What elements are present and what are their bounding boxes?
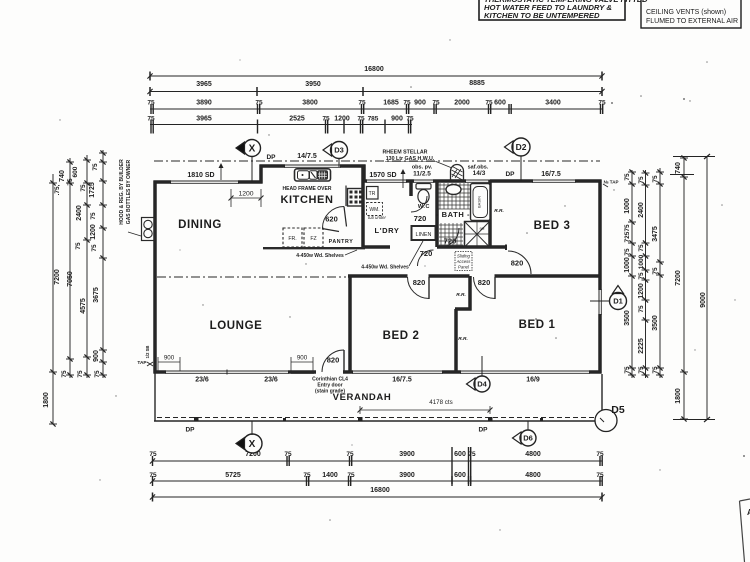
window arrows (SD) — [220, 165, 222, 180]
wall: laundry/wc x=411 — [409, 180, 413, 197]
svg-text:FLUMED TO EXTERNAL AIR: FLUMED TO EXTERNAL AIR — [646, 18, 738, 25]
GROUP: top dimension rows — [147, 66, 606, 134]
basin — [446, 185, 461, 195]
svg-text:75: 75 — [255, 100, 263, 107]
wall: lounge/bed2 x=350 — [348, 276, 352, 373]
svg-text:75: 75 — [90, 212, 97, 220]
svg-text:75: 75 — [75, 242, 82, 250]
marker D2 — [512, 138, 530, 156]
svg-text:75: 75 — [624, 173, 631, 181]
svg-text:7050: 7050 — [67, 271, 74, 287]
note box left (hot water note) — [479, 0, 625, 20]
verandah 4178 cts dimension — [360, 409, 490, 411]
1200 dimension (kitchen) — [231, 197, 261, 199]
svg-text:740: 740 — [59, 170, 66, 182]
toilet WC — [416, 184, 431, 190]
GROUP: top note boxes — [479, 0, 741, 28]
svg-text:DP: DP — [185, 427, 195, 434]
svg-text:HEAD FRAME OVER: HEAD FRAME OVER — [283, 186, 332, 192]
window: bed1 16/9 — [460, 370, 590, 372]
svg-text:2525: 2525 — [289, 116, 305, 123]
svg-text:FR.: FR. — [288, 236, 296, 242]
GROUP: doors — [322, 196, 531, 372]
shower (cross hatched) — [465, 222, 490, 248]
svg-text:1570 SD: 1570 SD — [369, 172, 396, 179]
left dim line 1 (7200/1800) — [52, 174, 54, 424]
bath room tile hatch lower — [439, 223, 463, 246]
svg-text:16/7.5: 16/7.5 — [392, 377, 412, 384]
svg-text:720: 720 — [420, 249, 433, 258]
right dim line 2 — [645, 170, 647, 378]
svg-text:D3: D3 — [334, 146, 344, 155]
WM (washing machine) — [367, 203, 383, 216]
svg-text:14/3: 14/3 — [473, 170, 486, 177]
svg-text:D4: D4 — [477, 380, 487, 389]
svg-text:75: 75 — [322, 116, 330, 123]
svg-text:16/9: 16/9 — [526, 377, 540, 384]
svg-text:11/2.5: 11/2.5 — [413, 171, 431, 178]
svg-text:16800: 16800 — [364, 66, 384, 73]
svg-text:75: 75 — [94, 370, 101, 378]
svg-text:D5: D5 — [611, 404, 625, 416]
svg-text:75: 75 — [624, 366, 631, 374]
svg-text:Panel: Panel — [458, 265, 470, 270]
left dim line 2 (740/7050) — [69, 158, 71, 378]
GROUP: fixtures — [128, 163, 608, 422]
svg-text:№ TAP: № TAP — [604, 180, 619, 185]
wall: outer right — [598, 180, 602, 291]
wall: bath/bed3 x=490 — [488, 180, 492, 248]
left dim line 3 (2400/4575) — [86, 155, 88, 378]
svg-text:3900: 3900 — [399, 451, 415, 458]
svg-text:4800: 4800 — [525, 451, 541, 458]
door: WC 720 — [411, 196, 427, 212]
GROUP: room labels — [178, 194, 570, 403]
GROUP: walls — [154, 161, 604, 422]
svg-text:2400: 2400 — [76, 205, 83, 221]
svg-text:75: 75 — [652, 366, 659, 374]
window: saf.obs 14/3 — [465, 179, 491, 181]
wall: top right section (windows 1570SD, obs pv, saf obs, 16/7.5) — [363, 179, 368, 183]
svg-text:DP: DP — [266, 154, 276, 161]
svg-text:900: 900 — [93, 350, 100, 362]
svg-text:TR: TR — [369, 191, 376, 197]
svg-text:D6: D6 — [523, 434, 533, 443]
sliding access panel note box — [455, 252, 472, 271]
kitchen shelves line — [263, 247, 365, 249]
right dim line 3 — [659, 168, 661, 378]
svg-text:1200: 1200 — [638, 283, 645, 299]
dim row: 3965/3950/8885 — [150, 91, 602, 93]
svg-text:1000: 1000 — [638, 254, 645, 269]
svg-text:14/7.5: 14/7.5 — [297, 153, 317, 160]
svg-text:3500: 3500 — [652, 315, 659, 331]
TR box — [367, 187, 379, 200]
eaves dash-dot line top — [154, 160, 600, 162]
svg-text:1000: 1000 — [624, 257, 631, 273]
scan noise specks — [611, 102, 613, 104]
GROUP: noise — [59, 39, 745, 530]
svg-text:620: 620 — [325, 215, 338, 224]
svg-text:RHEEM STELLAR: RHEEM STELLAR — [382, 150, 427, 156]
svg-text:GAS BOTTLES BY OWNER: GAS BOTTLES BY OWNER — [126, 159, 132, 224]
wall: hall south y=276 — [348, 274, 408, 278]
svg-text:3475: 3475 — [652, 226, 659, 242]
svg-text:75: 75 — [406, 116, 414, 123]
window: bed1 side (D1) — [598, 289, 600, 315]
svg-text:3500: 3500 — [624, 310, 631, 326]
svg-text:75: 75 — [92, 163, 99, 171]
marker X bottom — [243, 434, 262, 453]
GROUP: bottom dimension rows — [149, 447, 604, 502]
svg-text:Access: Access — [456, 259, 472, 264]
svg-text:1685: 1685 — [383, 100, 399, 107]
svg-text:5725: 5725 — [225, 472, 241, 479]
svg-text:600: 600 — [494, 100, 506, 107]
svg-text:3950: 3950 — [305, 81, 321, 88]
svg-text:3900: 3900 — [399, 472, 415, 479]
svg-text:1800: 1800 — [43, 392, 50, 408]
svg-text:KITCHEN: KITCHEN — [280, 194, 333, 206]
dim row: overall 16800 top — [150, 75, 602, 77]
marker X top — [244, 140, 261, 157]
bath tub — [471, 184, 491, 221]
svg-text:16/7.5: 16/7.5 — [541, 171, 561, 178]
svg-text:KITCHEN TO BE UNTEMPERED: KITCHEN TO BE UNTEMPERED — [484, 11, 600, 20]
svg-text:75: 75 — [652, 267, 659, 275]
verandah posts — [194, 417, 199, 422]
svg-text:Sliding: Sliding — [457, 254, 471, 259]
GROUP: markers — [236, 138, 627, 453]
svg-text:720: 720 — [444, 237, 457, 246]
svg-text:R.R.: R.R. — [494, 208, 504, 214]
svg-text:75: 75 — [61, 370, 68, 378]
note box right (ceiling vents note) — [641, 0, 741, 28]
svg-text:R.R.: R.R. — [456, 292, 466, 298]
right dim line 5 (9000) — [706, 156, 708, 420]
svg-text:7200: 7200 — [54, 269, 61, 285]
svg-text:75: 75 — [624, 248, 631, 256]
svg-text:4800: 4800 — [525, 472, 541, 479]
svg-text:D1: D1 — [613, 297, 623, 306]
svg-text:4-450w Wd. Shelves: 4-450w Wd. Shelves — [361, 265, 409, 271]
svg-text:BASIN: BASIN — [477, 196, 482, 208]
svg-text:75: 75 — [149, 472, 157, 479]
svg-text:75: 75 — [284, 451, 292, 458]
marker D1 — [610, 293, 627, 310]
verandah: inner dashed line — [157, 417, 601, 419]
door: bed2 820 — [428, 277, 430, 299]
dining/lounge divider dash-dot — [157, 276, 346, 278]
svg-text:600: 600 — [454, 472, 466, 479]
window: kitchen sink — [284, 164, 341, 166]
svg-text:75: 75 — [485, 100, 493, 107]
GROUP: annotations — [119, 150, 750, 562]
wall: wc/bath x=437 — [435, 180, 439, 248]
svg-text:2225: 2225 — [638, 338, 645, 354]
svg-text:75: 75 — [596, 451, 604, 458]
verandah: left edge — [154, 373, 156, 422]
svg-text:600: 600 — [454, 451, 466, 458]
door: entry 820 — [343, 350, 345, 372]
svg-text:725: 725 — [624, 231, 631, 242]
svg-text:75: 75 — [358, 100, 366, 107]
svg-text:DP: DP — [505, 171, 515, 178]
wall: kitchen nook step right — [362, 165, 366, 183]
linen cupboard — [412, 226, 436, 240]
svg-text:75: 75 — [432, 100, 440, 107]
svg-text:75: 75 — [638, 272, 645, 280]
door: bath 720 — [440, 228, 459, 247]
svg-text:900: 900 — [164, 355, 175, 362]
svg-text:900: 900 — [297, 355, 308, 362]
svg-text:1400: 1400 — [322, 472, 338, 479]
svg-text:R.R.: R.R. — [458, 336, 468, 342]
svg-text:75: 75 — [624, 224, 631, 232]
svg-text:X: X — [249, 144, 256, 155]
svg-text:16800: 16800 — [370, 487, 390, 494]
marker D4 — [474, 376, 490, 392]
svg-text:720: 720 — [414, 214, 427, 223]
svg-text:820: 820 — [511, 259, 524, 268]
svg-text:820: 820 — [327, 356, 340, 365]
svg-text:tub under: tub under — [368, 215, 386, 220]
window: obs pv 11/2.5 — [413, 179, 434, 181]
900 dimension brackets on bottom wall — [158, 361, 180, 363]
svg-text:DINING: DINING — [178, 219, 222, 231]
wall: kitchen/laundry x=363 — [361, 166, 365, 247]
tap marks — [147, 362, 153, 366]
wall: bath block bottom — [437, 245, 506, 249]
svg-text:BED 1: BED 1 — [519, 319, 556, 331]
svg-text:1725: 1725 — [89, 182, 96, 198]
svg-text:WM.: WM. — [369, 207, 379, 213]
svg-text:1810 SD: 1810 SD — [187, 172, 214, 179]
sheet corner bottom right — [740, 499, 750, 562]
svg-text:2400: 2400 — [638, 202, 645, 218]
svg-text:75: 75 — [403, 100, 411, 107]
svg-text:3965: 3965 — [196, 81, 212, 88]
svg-text:900: 900 — [414, 100, 426, 107]
svg-text:9R: 9R — [479, 226, 484, 231]
freezer FZ — [304, 228, 323, 247]
svg-text:740: 740 — [675, 162, 682, 174]
right dim line 1 — [631, 170, 633, 378]
right dim line 4 (740/7200/1800) — [683, 156, 685, 420]
wall: kitchen nook top (window over sink) — [260, 164, 286, 168]
svg-text:(stain grade): (stain grade) — [315, 389, 345, 395]
svg-text:3400: 3400 — [545, 100, 561, 107]
svg-text:75: 75 — [468, 451, 476, 458]
marker D6 — [520, 430, 536, 446]
svg-text:75: 75 — [598, 100, 606, 107]
svg-text:3965: 3965 — [196, 116, 212, 123]
door: bed3 820 — [508, 251, 531, 274]
svg-text:1/2 SB: 1/2 SB — [145, 346, 150, 359]
svg-text:BED 3: BED 3 — [534, 220, 571, 232]
svg-text:4178 cts: 4178 cts — [429, 399, 452, 406]
svg-text:HOOD & REG. BY BUILDER: HOOD & REG. BY BUILDER — [119, 159, 125, 225]
GROUP: left dimension columns — [43, 150, 107, 427]
svg-text:8885: 8885 — [469, 80, 485, 87]
dim row bottom 3: overall 16800 — [152, 496, 602, 498]
window: bed2 16/7.5 — [352, 370, 443, 372]
kitchen sink — [295, 169, 331, 181]
verandah: bottom edge — [154, 420, 603, 422]
door: bed1 820 — [494, 277, 496, 299]
svg-text:75: 75 — [638, 244, 645, 252]
svg-text:75: 75 — [67, 178, 74, 186]
left dim line 4 (600/1725/1200/3675/900) — [102, 150, 104, 378]
svg-text:4575: 4575 — [80, 298, 87, 314]
wall: laundry bottom — [363, 245, 390, 249]
svg-text:75: 75 — [303, 472, 311, 479]
svg-text:75: 75 — [638, 366, 645, 374]
window: entry sidelight 900 — [291, 370, 314, 372]
verandah: right edge — [601, 374, 603, 422]
wall: bottom with windows — [154, 370, 167, 374]
svg-text:75: 75 — [147, 100, 155, 107]
svg-text:CEILING VENTS (shown): CEILING VENTS (shown) — [646, 9, 726, 16]
svg-text:LINEN: LINEN — [416, 232, 432, 238]
svg-text:75: 75 — [638, 176, 645, 184]
fridge FR — [283, 228, 302, 247]
svg-text:75: 75 — [347, 472, 355, 479]
svg-text:130 Ltr GAS H.W.U.: 130 Ltr GAS H.W.U. — [386, 156, 435, 162]
svg-text:3675: 3675 — [93, 287, 100, 303]
door: pantry 620 (wedge) — [323, 207, 345, 229]
svg-text:9000: 9000 — [700, 292, 707, 308]
svg-text:23/6: 23/6 — [195, 377, 209, 384]
svg-text:3800: 3800 — [302, 100, 318, 107]
gas bottles — [142, 218, 155, 241]
wall: kitchen nook step left — [259, 165, 263, 184]
svg-text:LOUNGE: LOUNGE — [210, 320, 263, 332]
door: linen 720 — [418, 250, 434, 266]
svg-text:BED 2: BED 2 — [383, 330, 420, 342]
svg-text:75: 75 — [357, 116, 365, 123]
svg-text:75: 75 — [652, 175, 659, 183]
svg-text:PANTRY: PANTRY — [329, 239, 354, 245]
svg-text:820: 820 — [413, 278, 426, 287]
svg-text:75: 75 — [638, 305, 645, 313]
svg-text:7200: 7200 — [675, 270, 682, 286]
cooker (hatched box) — [348, 189, 363, 207]
dim row D — [150, 124, 412, 126]
svg-text:820: 820 — [478, 278, 491, 287]
window: 1810 SD dining — [170, 180, 239, 182]
window: lounge 23/6 pair — [165, 370, 289, 372]
window: 1570 SD — [366, 179, 407, 181]
svg-text:3890: 3890 — [196, 100, 212, 107]
svg-text:75: 75 — [77, 370, 84, 378]
svg-text:75: 75 — [149, 451, 157, 458]
svg-text:75: 75 — [147, 116, 155, 123]
dim row bottom 2 — [152, 480, 602, 482]
wall: bed2/bed1 robe jog — [468, 276, 472, 311]
svg-text:W.C: W.C — [418, 204, 430, 210]
svg-text:1200: 1200 — [90, 224, 97, 240]
dim row: 75/3890/75/3800/75/1685/75/900/75/2000/75/600/3400/75 — [150, 108, 602, 110]
dim row bottom 1 — [152, 460, 602, 462]
kitchen bench edge — [345, 186, 347, 207]
wall: outer left — [153, 181, 157, 374]
svg-text:1200: 1200 — [238, 191, 253, 198]
svg-text:- BATH -: - BATH - — [436, 210, 470, 219]
svg-text:L'DRY: L'DRY — [375, 226, 400, 235]
svg-text:X: X — [249, 439, 256, 450]
svg-text:FZ: FZ — [310, 236, 316, 242]
svg-text:1200: 1200 — [334, 116, 350, 123]
svg-text:900: 900 — [391, 116, 403, 123]
wall: top dining (with window 1810SD) — [154, 180, 172, 184]
bath room tile hatch upper — [439, 183, 471, 209]
svg-text:75: 75 — [596, 472, 604, 479]
svg-text:600: 600 — [72, 166, 79, 177]
marker D3 — [331, 142, 348, 159]
svg-text:4-450w Wd. Shelves: 4-450w Wd. Shelves — [296, 253, 344, 259]
svg-text:DP: DP — [478, 427, 488, 434]
svg-text:TAP: TAP — [137, 360, 147, 366]
svg-text:1000: 1000 — [624, 198, 631, 214]
svg-text:1800: 1800 — [675, 388, 682, 404]
marker D5 circle — [595, 410, 617, 432]
svg-text:785: 785 — [368, 116, 379, 123]
window: bed3 16/7.5 — [532, 179, 576, 181]
svg-text:75: 75 — [346, 451, 354, 458]
svg-text:.75,: .75, — [54, 184, 61, 195]
svg-text:2000: 2000 — [454, 100, 470, 107]
hot water unit (RHEEM) — [451, 165, 464, 181]
svg-text:75: 75 — [80, 184, 87, 192]
svg-text:D2: D2 — [516, 142, 527, 152]
svg-text:75: 75 — [91, 244, 98, 252]
svg-text:23/6: 23/6 — [264, 377, 278, 384]
GROUP: right dimension columns — [624, 154, 715, 422]
